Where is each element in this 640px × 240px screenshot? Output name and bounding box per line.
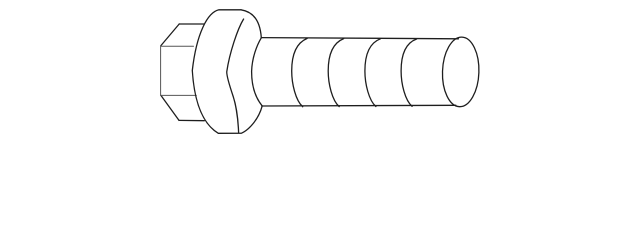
shank top line — [261, 38, 458, 39]
line drawing of flanged hex-head bolt — [0, 0, 640, 145]
hex head lower facet line — [161, 94, 196, 96]
washer flange outline left+bottom — [192, 10, 262, 134]
hex head bottom slant — [161, 96, 179, 121]
thread arc 4 — [401, 39, 417, 106]
bolt tip ellipse — [441, 36, 480, 107]
washer front-face inner curve — [227, 19, 244, 133]
hex head upper facet line — [161, 45, 194, 47]
thread arc 3 — [365, 39, 381, 107]
shank neck arc at washer — [252, 38, 263, 106]
hex head bottom edge — [179, 119, 204, 121]
washer flange outline upper-right — [241, 10, 261, 38]
thread arc 2 — [328, 39, 344, 107]
hex head top slant — [161, 24, 179, 46]
thread arc 1 — [292, 38, 308, 106]
hex head top edge — [179, 23, 204, 25]
shank bottom line — [262, 104, 456, 107]
hex head left edge — [160, 46, 162, 96]
